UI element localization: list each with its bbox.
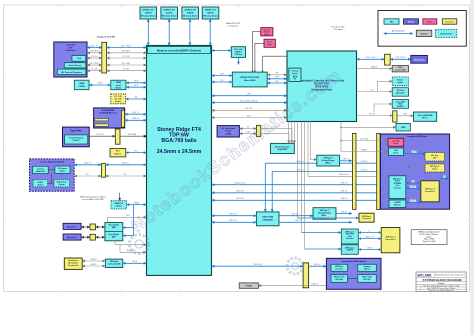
usb small box [396,123,410,131]
wire conn to usb hub4 [397,115,414,117]
svg-text:USB Micro: USB Micro [335,266,343,268]
svg-text:USB 2.0: USB 2.0 [295,220,302,222]
wire cpu usb c1 [212,184,390,186]
note type-c support [411,230,447,245]
wire ec to usb small [340,122,342,152]
wire usb to fingerprint conn [357,58,385,60]
wire DDR channel 1 [147,19,149,46]
wire sensor branch [377,81,379,91]
svg-text:BL_EN: BL_EN [123,69,130,71]
LED power pink box [388,138,404,146]
svg-text:USB 2.0/1: USB 2.0/1 [229,220,237,222]
memory down box 1 [140,7,157,19]
svg-text:EC_IO: EC_IO [369,113,375,115]
svg-text:Battery: Battery [114,153,122,156]
wire storage1 out [340,160,352,162]
svg-text:Option: Option [267,43,272,46]
wire I2S option [126,98,147,100]
io connector right [393,111,397,122]
svg-text:PD3.0: PD3.0 [395,181,400,183]
svg-text:USB 2.0: USB 2.0 [327,216,334,218]
svg-text:Combo Jack: Combo Jack [68,265,79,267]
wire smart board link [348,277,358,279]
wire dc in 1 [239,128,256,130]
wire KB detect [89,135,115,137]
svg-text:USB 3.1/2: USB 3.1/2 [236,198,244,200]
svg-text:M.2 WLAN/BT: M.2 WLAN/BT [101,109,115,112]
pd controller 1 [389,176,406,199]
svg-text:Option: Option [115,100,122,103]
wire LCD backlight [87,57,102,59]
memory down box 3 [182,7,199,19]
DC in connector [257,125,261,136]
wire usb3 riser 2 [271,172,273,212]
memory down box 4 [202,7,219,19]
wire spi cpu side 2 [212,81,233,83]
wire pd2 usb [358,238,381,240]
discrete VGA pink box [261,28,273,36]
wire pd2 cc [358,232,381,234]
smart board sub 3 [331,275,348,283]
svg-text:FingerPrint: FingerPrint [414,58,425,61]
svg-text:BGA:769 balls: BGA:769 balls [161,138,196,144]
svg-text:SPI: SPI [276,73,279,75]
svg-text:Shifter: Shifter [115,86,121,89]
wire ec usb feed 1 [296,122,298,219]
wire DDI data [126,82,147,84]
svg-text:USB 3.1: USB 3.1 [341,191,348,193]
svg-text:W25Q128 SPI ROM: W25Q128 SPI ROM [240,77,259,79]
wire HDMI out [89,84,111,86]
speaker pad R [90,234,95,240]
svg-text:Daughter USB Board: Daughter USB Board [407,135,428,138]
svg-text:eMMC: eMMC [134,202,140,204]
svg-text:CCD: CCD [77,58,82,60]
legend bus arrow [384,33,414,35]
wire camera internal vertical [51,173,53,183]
smart board sub 2 [358,264,377,271]
wire audio mic [82,265,105,267]
svg-text:Touch Pointing: Touch Pointing [69,137,83,140]
wire cpu usb c3 [212,199,390,201]
svg-text:USB 3.1: USB 3.1 [341,198,348,200]
wire hub branch [373,104,375,116]
svg-text:PCIe 1.1: PCIe 1.1 [132,112,139,114]
all key led dashed box [425,153,445,162]
svg-text:LCD 15.6: LCD 15.6 [66,45,75,47]
svg-text:USB Type-C: USB Type-C [345,231,355,233]
fingerprint connector [385,54,391,65]
legend optional swatch [416,30,432,36]
wire conn to smartboard [309,265,327,267]
wire clkgen to cpu [212,50,232,52]
svg-text:BL_EN: BL_EN [91,69,98,71]
svg-text:PD3.0 TPS: PD3.0 TPS [346,234,354,236]
svg-text:KB_INT#: KB_INT# [245,108,254,110]
wire speaker L [81,226,90,228]
pink power box 2 [264,39,275,47]
wire audio out [82,260,105,262]
wire clkgen stub down [238,57,240,64]
svg-text:DDR4 1.2V: DDR4 1.2V [143,9,155,12]
svg-text:Sensor: Sensor [292,73,298,75]
svg-text:LED xxx: LED xxx [364,268,370,270]
svg-text:USB_OC: USB_OC [312,283,320,285]
touch sub box [64,63,86,68]
eDP connector CN1 [102,42,107,73]
svg-text:USB 3.1: USB 3.1 [410,200,416,202]
legend cyan swatch [384,19,399,24]
keyboard connector [115,129,120,144]
svg-text:Memory Down: Memory Down [183,16,199,18]
svg-text:USB 2.0/3.0: USB 2.0/3.0 [366,57,376,59]
svg-text:Connector: Connector [66,49,76,52]
svg-text:USB 2.0: USB 2.0 [314,264,320,266]
type-c connector 1 [421,181,439,202]
svg-text:Power: Power [427,22,433,24]
svg-text:eSPI: eSPI [220,73,224,75]
WLAN key bar 2 [95,124,109,126]
wire usb3 riser 1 [264,163,266,212]
wire kb int [212,109,288,111]
svg-text:Power Button Signals: Power Button Signals [240,99,258,102]
svg-text:AUDIO: AUDIO [91,263,97,266]
speaker right [63,234,81,240]
bottom usb connector [303,263,309,288]
svg-text:USB 2.0/3.0: USB 2.0/3.0 [396,57,406,59]
legend yellow swatch [442,19,457,24]
battery charger box [271,143,295,153]
mux redriver 1 [389,200,406,208]
svg-text:USB 3.1/2: USB 3.1/2 [236,191,244,193]
svg-text:Battery Charger: Battery Charger [275,145,290,148]
wire ec usb feed 3 [304,122,306,250]
EC hub U2 [287,51,357,122]
wire camera i2c [74,175,101,177]
dashed sensor box [54,180,69,187]
wire spi ec side 1 [267,74,287,76]
svg-text:BWxxx: BWxxx [325,162,331,164]
wire spi cpu side 1 [212,75,233,77]
svg-text:USB 2.0/1: USB 2.0/1 [229,214,237,216]
svg-text:SMBUS: SMBUS [361,149,368,151]
wire amp sense 2 [114,241,116,245]
wire pd1 cc [406,182,421,184]
DC 3.3V 1.8V option box [111,94,126,104]
wire speaker R [81,236,90,238]
svg-text:HD Camera Micphone: HD Camera Micphone [61,72,83,74]
WWAN dashed box [392,77,408,86]
junction dot KB [145,135,147,137]
svg-text:USB Type-C: USB Type-C [393,179,403,181]
smart board sub 1 [331,264,348,271]
svg-text:4Gb*8: 4Gb*8 [187,12,194,15]
svg-text:Option: Option [59,183,65,186]
wire DDR channel 4 [209,19,211,46]
wire hub out 2 [279,221,352,223]
svg-text:Touch Pad: Touch Pad [70,130,82,132]
svg-text:Module: Module [408,22,414,24]
board to board connector 2 [377,133,380,209]
svg-text:Supports Full HD: Supports Full HD [97,36,115,39]
svg-text:eDP_AUX: eDP_AUX [122,50,131,53]
svg-text:Connector 1: Connector 1 [425,190,435,193]
watermark gear left [130,235,149,254]
dashed mic box [33,180,48,187]
CCD sub box [72,56,86,62]
svg-text:USB 2.0: USB 2.0 [121,163,128,165]
svg-text:USB 3.1: USB 3.1 [343,159,349,161]
wire cpu usb c2 [212,192,390,194]
svg-text:AUDIO: AUDIO [91,258,97,261]
svg-text:4Gb*8: 4Gb*8 [207,12,214,15]
svg-text:LS/MUX: LS/MUX [347,250,354,252]
CPU U1 Stoney Ridge FT4 [147,46,212,276]
svg-text:USB: USB [401,127,406,129]
wire ec io conn [357,115,393,117]
svg-text:4Gb*8: 4Gb*8 [166,12,173,15]
wire i2s to amp 2 [123,235,134,237]
svg-text:Optional: Optional [420,33,428,36]
svg-text:eDP_TX: eDP_TX [91,45,99,47]
wire ec to charger 1 [288,122,290,144]
pd controller 2 [341,229,358,244]
svg-text:Camera Module(U-Shell): Camera Module(U-Shell) [40,160,64,163]
svg-text:TPS65982: TPS65982 [394,183,402,185]
BT module box [392,88,408,97]
DC in board box [217,126,239,137]
wire sci [212,117,288,119]
wire type-c led link [407,166,425,168]
wire eSPI cpu-ec [212,95,288,97]
svg-text:Module/FF: Module/FF [36,171,46,173]
RGB camera box [33,166,49,173]
svg-text:CLK Gen: CLK Gen [235,54,243,56]
wire ec i2c sensors [357,91,393,93]
touch pad outer box [63,127,90,147]
svg-text:DDC: DDC [134,85,139,87]
HDMI connector [74,80,89,90]
wire DDR channel 3 [189,19,191,46]
svg-text:4-Port USB HUB: 4-Port USB HUB [418,114,433,117]
svg-text:USB 2.0: USB 2.0 [132,118,139,120]
svg-text:Connector: Connector [362,217,371,220]
svg-text:LCD_BL: LCD_BL [122,56,129,58]
type-c connector 2 [381,228,400,253]
svg-text:CONN: CONN [79,86,86,88]
svg-text:CONN: CONN [225,133,231,135]
wire ec usb feed 2 [301,122,303,233]
wire led power [341,140,388,142]
svg-text:DDI0: DDI0 [134,81,138,83]
IR camera box [55,166,70,173]
type-c storage box 2 [313,208,336,220]
memory down box 2 [161,7,178,19]
watermark gear right [287,258,303,274]
usb hub 3port box [392,100,408,109]
wire backlight pwm [87,64,102,66]
thermal sensor sub box [289,68,301,81]
svg-text:USB 2: USB 2 [412,152,417,154]
camera 30pin box [392,66,408,72]
svg-text:USB 3.0: USB 3.0 [297,161,304,163]
svg-text:Bluetooth: Bluetooth [396,92,404,95]
svg-text:HDMI: HDMI [79,83,85,85]
svg-text:BITLAND: BITLAND [418,273,433,277]
svg-text:LCD_BL: LCD_BL [91,56,98,58]
svg-text:eSPI: eSPI [275,77,279,79]
svg-text:Bus Connection: Bus Connection [392,30,405,33]
svg-text:Memory controller(DDR4 Channel: Memory controller(DDR4 Channel) [157,48,201,52]
wire conn to fingerprint [390,58,411,60]
svg-text:USB2514B: USB2514B [263,218,274,221]
right gutter strip [470,0,474,335]
svg-text:Memory Down: Memory Down [203,16,219,18]
wire HDA link [123,262,147,264]
WLAN key bar 1 [95,119,109,121]
legend pink swatch [423,19,437,24]
camera connector [101,164,105,178]
legend dashed swatch [435,30,457,38]
svg-text:Share BIOS: Share BIOS [244,79,256,82]
wire ec to charger 3 [293,122,295,144]
usb hub 4port box [414,112,437,121]
wire into eMMC top [119,193,121,201]
wire to storage1 [310,122,312,160]
svg-text:USB 2 HUB: USB 2 HUB [262,217,273,219]
wire spi ec side 2 [267,78,287,80]
svg-text:eDP_TX0/1: eDP_TX0/1 [121,45,131,47]
wire i2s to amp 1 [123,227,134,229]
svg-text:Memory Down: Memory Down [141,16,157,18]
svg-text:Option: Option [60,170,66,173]
wire PCIe to WLAN [125,113,147,115]
speaker left [63,223,81,229]
svg-text:Speaker R: Speaker R [67,236,78,239]
svg-text:Codec ALC256: Codec ALC256 [108,263,121,266]
legend box [378,11,466,47]
memory controller bar [148,46,211,53]
wire cpu bottom usb [212,265,304,267]
svg-text:Pad I2C: Pad I2C [73,140,81,142]
svg-text:BL_PWM: BL_PWM [90,63,98,65]
svg-text:eDP_AUX: eDP_AUX [90,50,99,53]
wire camera kb [357,68,393,70]
svg-text:RTC: RTC [134,150,138,152]
clock gen box [231,47,245,58]
svg-text:HD-A: HD-A [132,260,137,263]
wire mux2 usb [358,249,381,251]
svg-text:Fingerprint 2.0: Fingerprint 2.0 [234,182,246,185]
svg-text:LED_PWR: LED_PWR [360,138,369,140]
RTC battery box [110,149,126,157]
svg-text:SY6288: SY6288 [245,286,252,288]
svg-text:DDR4 1.2V: DDR4 1.2V [185,9,197,12]
mux redriver 2 [341,245,358,255]
wire spi ec side 3 [267,82,287,84]
wire i2s riser [133,205,135,236]
wire KB data [120,135,147,137]
wire mux1 usb [406,202,421,204]
svg-text:SPI: SPI [276,81,279,83]
svg-text:eSPI: eSPI [247,94,252,96]
wire backlight enable [87,70,102,72]
svg-text:Option: Option [116,205,123,208]
svg-text:Type2 3.0 = 10Gb: Type2 3.0 = 10Gb [423,241,436,243]
type-c storage box 1 [317,155,340,166]
board to board connector 1 [353,133,356,209]
svg-text:USB 2.0/1: USB 2.0/1 [254,264,263,266]
svg-text:DDR4 1.2V: DDR4 1.2V [205,9,217,12]
speaker pad L [90,224,95,230]
usb board connector small [359,213,374,222]
svg-text:Intel/QCA/Mercury: Intel/QCA/Mercury [99,112,117,115]
wire dc in 2 [239,133,256,135]
svg-text:Driver: Driver [394,152,399,154]
svg-text:USB 2.0: USB 2.0 [84,163,91,165]
wire camera internal link [48,169,55,171]
LED driver box [389,148,404,156]
wire hub out 1 [279,215,313,217]
svg-text:Camera USB: Camera USB [395,69,406,71]
wire eDP aux [87,52,102,54]
M.2 connector key E [122,110,125,127]
svg-text:SMBUS: SMBUS [371,66,378,68]
svg-text:DDR4 1.2V: DDR4 1.2V [164,9,176,12]
wire ec to spi [263,55,287,57]
svg-text:USB 2.0: USB 2.0 [361,169,368,171]
svg-text:USB 3.1: USB 3.1 [341,211,347,213]
svg-text:Touch Screen: Touch Screen [68,65,82,67]
legend purple swatch [404,19,419,24]
wire storage2 out [336,213,352,215]
svg-text:SPI: SPI [220,80,223,82]
HDMI level shifter [111,80,126,90]
wire DDI clock [126,86,147,88]
svg-text:Smart Board/LED Board: Smart Board/LED Board [342,260,367,263]
wire amp spk sense [108,216,147,218]
svg-text:Optional Parts: Optional Parts [440,33,452,36]
usb oc box [239,283,258,288]
wire kb scan [307,122,309,177]
svg-text:KB_DET: KB_DET [96,134,104,136]
LCD panel box [54,42,87,77]
M.2 WLAN BT module [94,108,125,128]
svg-text:USB 2.0: USB 2.0 [341,183,348,185]
svg-text:KB_DATA: KB_DATA [128,133,137,136]
svg-text:eDP: eDP [69,47,74,49]
svg-text:BQ24780S: BQ24780S [278,148,288,151]
svg-text:Option: Option [37,183,43,186]
HD audio codec [105,259,122,267]
svg-text:Project: Project [438,282,444,285]
wire ec to charger 2 [291,122,293,144]
svg-text:one of eMMC or M.2 SSD: one of eMMC or M.2 SSD [82,199,104,201]
type-c led dashed box [425,164,445,172]
svg-text:Option: Option [432,168,437,171]
svg-text:RTC: RTC [116,151,121,153]
wire usb3 line 1 [265,162,380,164]
touch pad inner box [65,135,88,144]
wire USB to WLAN [125,119,147,121]
svg-text:USB 3.1: USB 3.1 [410,186,416,188]
wire camera usb [74,164,101,166]
svg-text:GL850G: GL850G [397,106,404,108]
svg-text:Memory Down: Memory Down [162,16,178,18]
wire eDP main link [87,47,102,49]
svg-text:to all devices: to all devices [228,24,239,27]
svg-text:TypeC:: TypeC: [426,236,432,238]
